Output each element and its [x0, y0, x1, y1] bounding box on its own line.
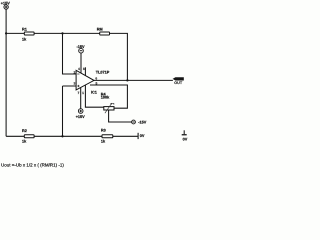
node junction output / RM / R4 loop	[126, 79, 128, 81]
op-amp U1 TL071P triangle	[76, 70, 94, 90]
supply terminal +15V (below op-amp)	[76, 109, 85, 119]
supply terminal -15V (right of wiper)	[132, 120, 147, 125]
svg-text:2: 2	[73, 70, 75, 74]
wire bottom node up to non-inverting input	[63, 86, 77, 136]
pin stub NC (pin 8, top)	[84, 67, 86, 75]
wire node A down to inverting input	[63, 34, 77, 74]
svg-text:0V: 0V	[183, 138, 188, 142]
svg-text:+15V: +15V	[76, 115, 85, 119]
wire R1 to node A	[34, 32, 62, 34]
svg-text:100k: 100k	[101, 95, 110, 99]
OUT terminal flag	[173, 77, 184, 85]
svg-text:R1: R1	[22, 28, 27, 32]
supply symbol 0V (bottom right)	[182, 130, 188, 141]
wire op-amp pin 5 (offset) to R4 right	[90, 85, 127, 108]
svg-text:1k: 1k	[101, 140, 106, 144]
svg-text:R3: R3	[101, 129, 106, 133]
svg-text:0V: 0V	[140, 134, 145, 138]
svg-text:IC1: IC1	[91, 91, 97, 95]
wire bottom rail left segment	[6, 135, 24, 137]
op-amp plus sign (pin3)	[77, 85, 79, 87]
node B junction (+IN tap)	[61, 135, 63, 137]
svg-text:7: 7	[77, 91, 79, 95]
supply terminal -15V (above op-amp)	[77, 45, 85, 53]
svg-text:RM: RM	[97, 27, 103, 31]
svg-text:4: 4	[78, 67, 80, 71]
wire op-amp V+ (pin 7) to +15V	[80, 88, 82, 109]
wire output (pin 6) to OUT	[94, 79, 173, 81]
wire node A to RM	[63, 32, 100, 34]
node junction left rail / R1	[5, 32, 7, 34]
wire node B to R3	[63, 135, 103, 137]
wire R2 to node B	[34, 135, 62, 137]
wire top rail to R1	[6, 32, 24, 34]
svg-text:6: 6	[95, 76, 97, 80]
supply terminal +15V (top-left)	[1, 1, 10, 9]
svg-text:R2: R2	[22, 129, 27, 133]
resistor R1 1k	[22, 28, 34, 42]
wire RM to output node (corner)	[110, 33, 128, 80]
svg-text:-15V: -15V	[77, 45, 85, 49]
svg-text:1k: 1k	[22, 139, 27, 143]
svg-text:8: 8	[83, 67, 85, 71]
svg-text:1k: 1k	[22, 37, 27, 41]
op-amp minus sign (pin2)	[77, 73, 79, 75]
wire -15V to op-amp V- (pin 4)	[80, 53, 82, 73]
wire R3 to 0V terminal	[113, 135, 138, 137]
resistor R3 1k	[101, 129, 113, 144]
svg-text:3: 3	[73, 81, 75, 85]
svg-text:TL071P: TL071P	[96, 71, 110, 75]
supply terminal 0V (mid, bar)	[138, 133, 145, 139]
svg-text:Uout =-Ub x 1/2 x ( (RM/R1) -1: Uout =-Ub x 1/2 x ( (RM/R1) -1)	[1, 162, 64, 167]
resistor R2 1k	[22, 129, 34, 143]
wire op-amp pin 1 (offset) to R4 left	[85, 85, 103, 107]
node A junction (-IN tap)	[61, 32, 63, 34]
svg-text:1: 1	[82, 91, 84, 95]
wire R4 wiper to -15V	[109, 110, 132, 122]
wire left rail (from +15V down to bottom rail)	[5, 9, 7, 136]
svg-text:OUT: OUT	[174, 81, 183, 85]
svg-text:-15V: -15V	[138, 121, 146, 125]
svg-text:+15V: +15V	[1, 1, 10, 5]
resistor RM	[97, 27, 110, 35]
trimmer R4 100k	[101, 93, 114, 114]
